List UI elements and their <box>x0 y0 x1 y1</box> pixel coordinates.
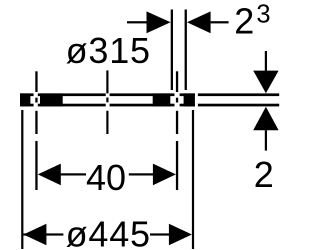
svg-text:ø445: ø445 <box>66 213 151 250</box>
svg-text:40: 40 <box>86 157 126 198</box>
svg-text:3: 3 <box>256 0 270 28</box>
svg-text:ø315: ø315 <box>66 30 151 71</box>
svg-text:2: 2 <box>254 154 274 195</box>
svg-text:2: 2 <box>234 1 254 42</box>
